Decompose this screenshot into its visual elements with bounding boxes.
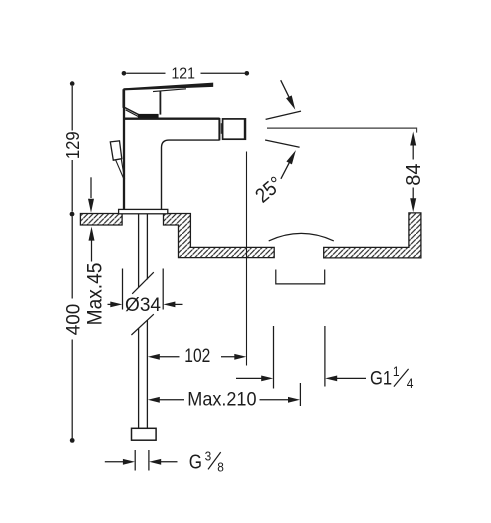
dia34 left arrow [108,303,113,305]
25deg upper arrow [281,80,290,98]
pipe break diagonal upper [132,272,154,294]
deck middle hatched band with step [164,214,275,258]
Max45 down arrow [90,177,92,198]
dim 121 end dots [122,71,127,76]
G1-1/4 right arrow [336,377,367,379]
handle lever lower thin line [153,89,186,92]
drain stub outline [276,270,325,284]
spout projection line [246,152,248,366]
supply pipe right line lower [146,320,148,428]
spray line middle [267,127,417,129]
svg-text:129: 129 [62,131,83,159]
spray line lower [265,140,300,147]
deck bump arc over drain [269,233,334,241]
G3/8 left arrow [105,461,125,463]
dia34 right arrow [174,303,183,305]
svg-text:121: 121 [171,65,194,83]
handle base inner diagonal [126,110,139,117]
dim 102 line [159,356,237,358]
dim 121 line [126,72,244,74]
Max210 right extension line [299,383,301,406]
G1-1/4 left arrow [236,377,263,379]
dim 129/400 dots [70,81,75,86]
svg-text:400: 400 [63,304,84,336]
spout right edge [218,118,220,140]
tag string right [121,159,124,179]
dim 400 line [71,217,73,439]
tag string left [116,160,124,179]
supply pipe left line upper [138,214,140,288]
aerator right edge thick [244,119,246,140]
svg-text:1: 1 [393,363,400,379]
handle joint dark bar [138,114,159,118]
svg-text:Ø34: Ø34 [125,295,161,316]
G1-1/4 extension lines [274,326,325,389]
tag label [110,141,122,160]
pipe break diagonal lower [131,314,153,335]
faucet body left edge [123,89,125,209]
faucet body top edge [123,118,219,120]
svg-text:G: G [189,450,202,473]
svg-text:3: 3 [205,449,212,464]
spray line middle end tick [416,128,418,133]
svg-text:8: 8 [217,460,224,475]
dim Max210 line [159,399,291,401]
handle base right edge [159,91,161,115]
svg-text:102: 102 [184,345,210,367]
joint tick between spout and aerator [220,123,222,134]
svg-text:Max.45: Max.45 [84,263,107,326]
dim 84 upper arrow [412,145,414,160]
25deg lower arrow [281,162,290,179]
svg-text:G1: G1 [370,367,392,389]
supply pipe right line upper [146,214,148,280]
handle base bottom diagonal [124,107,140,115]
G3/8 extension lines [135,450,149,471]
dim 84 lower arrow [412,188,414,201]
svg-text:84: 84 [403,163,425,185]
svg-text:4: 4 [407,375,414,391]
supply pipe left line lower [138,328,140,428]
dim 129 line [71,86,73,212]
G3/8 right arrow [160,461,178,463]
aerator box [223,119,246,139]
deck upper-left hatched band [80,214,122,226]
faucet base plate [119,209,168,213]
dia34 extension lines [123,269,164,310]
G3/8 connector block [132,428,157,440]
spray line upper [266,111,301,119]
handle lever solid tapered bar [123,83,213,91]
Max45 up arrow [91,240,93,262]
deck lower-right hatched band with wall [324,213,421,258]
spout underside and body right edge [162,140,220,209]
handle base left edge [122,89,125,108]
svg-text:Max.210: Max.210 [187,388,256,410]
